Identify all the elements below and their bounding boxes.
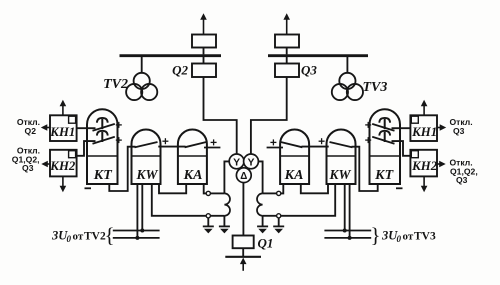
wire KW-KA left xyxy=(158,146,185,148)
output relay KH1 left xyxy=(50,115,77,141)
svg-text:TV3: TV3 xyxy=(363,80,388,95)
KH2 left arrow out xyxy=(41,161,50,168)
power relay KW left body xyxy=(132,130,161,185)
label KW right xyxy=(328,167,351,182)
power transformer T (Y/Y/D) xyxy=(229,154,258,183)
KW left contact xyxy=(135,138,169,147)
label KA left xyxy=(183,168,203,183)
bus W3 (right busbar) xyxy=(268,54,368,57)
svg-text:{: { xyxy=(104,223,114,247)
svg-text:}: } xyxy=(370,223,380,247)
svg-text:КТ: КТ xyxy=(93,168,113,183)
label TV2 xyxy=(103,77,128,92)
wire KA left stub right xyxy=(267,147,283,149)
label minus right xyxy=(396,187,403,189)
label 3U0 ot TV2 xyxy=(51,228,106,244)
label KT left xyxy=(93,168,113,183)
KH2 left arrow down xyxy=(60,176,67,192)
svg-text:TV2: TV2 xyxy=(103,77,128,92)
KT left contact 1 (time contact) xyxy=(77,118,122,131)
wire KW terminal 4 to KA left xyxy=(159,184,186,193)
KH1 right arrow up xyxy=(421,100,428,116)
svg-text:КН1: КН1 xyxy=(411,125,437,139)
label Q1 xyxy=(258,235,274,250)
wire KW contact to KT coil (left) xyxy=(109,147,135,191)
KT left contact 2 (time contact) xyxy=(77,131,122,156)
wire node to coil bottom right xyxy=(263,215,277,217)
svg-text:Q2: Q2 xyxy=(25,126,37,136)
CT coil right xyxy=(257,193,263,215)
wire KW terminal 3 to node right xyxy=(281,184,335,216)
ground left node xyxy=(203,218,214,234)
label Otkl Q2 xyxy=(17,117,40,136)
output relay KH1 right xyxy=(410,115,437,141)
time relay KT right body xyxy=(370,109,401,184)
node circle upper right xyxy=(277,191,281,195)
label KA right xyxy=(284,168,304,183)
svg-text:КА: КА xyxy=(284,168,304,183)
disconnector box left xyxy=(192,35,216,55)
svg-text:КТ: КТ xyxy=(374,168,394,183)
voltage transformer TV3 xyxy=(332,57,363,100)
KH2 right arrow down xyxy=(421,176,428,192)
svg-text:Δ: Δ xyxy=(240,171,247,182)
wire KW terminal 4 to KA right xyxy=(301,184,328,193)
breaker Q1 xyxy=(233,236,254,249)
wire KW terminal 2 left xyxy=(141,184,143,231)
breaker Q2 xyxy=(192,57,216,77)
wire Q2 to transformer xyxy=(204,77,237,154)
label Otkl Q3 xyxy=(450,117,473,136)
svg-text:Q1: Q1 xyxy=(258,235,274,250)
3U0 bus TV3 xyxy=(324,231,371,238)
wire transformer to Q1 xyxy=(242,183,244,236)
svg-text:от: от xyxy=(403,230,414,242)
feeder arrow up (left line W2) xyxy=(200,13,207,34)
svg-text:0: 0 xyxy=(397,234,402,244)
svg-text:TV3: TV3 xyxy=(414,230,436,242)
junction dot xyxy=(343,229,347,233)
feeder arrow up (right line W3) xyxy=(283,13,290,34)
bus W2 (left busbar) xyxy=(120,54,222,57)
label minus left xyxy=(85,187,92,189)
svg-text:Q3: Q3 xyxy=(301,63,317,78)
disconnector box right xyxy=(275,35,299,55)
wire KA-KW right xyxy=(301,146,328,148)
svg-text:KW: KW xyxy=(328,167,351,182)
output relay KH2 right xyxy=(410,150,437,177)
wire node to coil right xyxy=(263,192,277,194)
ground right node xyxy=(273,218,284,234)
wire transformer Y2 to coil right xyxy=(258,161,263,193)
label KH1 right xyxy=(411,125,437,139)
label KH2 left xyxy=(49,159,76,173)
bar below Q1 xyxy=(225,248,261,257)
wire Q3 to transformer xyxy=(251,77,287,154)
wire node to coil bottom left xyxy=(210,215,224,217)
wire node to coil left xyxy=(210,192,224,194)
KH1 left arrow up xyxy=(60,100,67,116)
junction dot xyxy=(135,236,139,240)
svg-text:Q3: Q3 xyxy=(456,175,468,185)
node circle lower left xyxy=(206,214,210,218)
breaker Q3 xyxy=(275,57,299,77)
svg-text:Q3: Q3 xyxy=(22,163,34,173)
wire KA right stub left xyxy=(204,147,220,149)
wire KW terminal 2 right xyxy=(344,184,346,231)
wire KW terminal 3 to node left xyxy=(152,184,206,216)
label Q2 xyxy=(172,63,188,78)
wire KW terminal 1 right xyxy=(349,184,351,238)
svg-text:КН2: КН2 xyxy=(411,159,438,173)
label Q3 xyxy=(301,63,317,78)
wire KA to node right xyxy=(281,184,284,193)
svg-text:Y: Y xyxy=(247,157,254,169)
label KW left xyxy=(135,167,158,182)
node circle upper left xyxy=(206,191,210,195)
KH2 right arrow out xyxy=(437,161,446,168)
KA left contact xyxy=(185,139,217,147)
wire KA to node left xyxy=(204,184,207,193)
svg-text:КА: КА xyxy=(183,168,203,183)
power relay KW right body xyxy=(327,130,356,185)
label KH1 left xyxy=(49,125,75,139)
label 3U0 ot TV3 xyxy=(381,228,436,244)
label Otkl Q123 right xyxy=(450,158,478,186)
arrow up to bar xyxy=(240,258,247,271)
label Otkl Q123 left xyxy=(12,146,40,174)
3U0 bus TV2 xyxy=(113,231,160,238)
KA right contact xyxy=(270,139,302,147)
svg-text:КН1: КН1 xyxy=(49,125,75,139)
brace left xyxy=(104,223,114,247)
voltage transformer TV2 xyxy=(126,57,157,100)
wire KW terminal 1 left xyxy=(136,184,138,238)
KH1 right arrow out xyxy=(437,124,446,131)
time relay KT left body xyxy=(87,109,118,184)
label KT right xyxy=(374,168,394,183)
ground right coil xyxy=(257,216,268,234)
label KH2 right xyxy=(411,159,438,173)
node circle lower right xyxy=(277,214,281,218)
svg-text:KW: KW xyxy=(135,167,158,182)
svg-text:Y: Y xyxy=(233,157,240,169)
junction dot xyxy=(348,236,352,240)
svg-text:TV2: TV2 xyxy=(84,230,106,242)
junction dot xyxy=(140,229,144,233)
CT coil left xyxy=(224,193,230,215)
svg-text:0: 0 xyxy=(67,234,72,244)
current relay KA left body xyxy=(178,130,207,185)
current relay KA right body xyxy=(280,130,309,185)
wire transformer Y1 to coil left xyxy=(224,161,229,193)
label TV3 xyxy=(363,80,388,95)
ground left coil xyxy=(219,216,230,234)
KT right contact 2 (time contact) xyxy=(365,131,410,156)
KT right contact 1 (time contact) xyxy=(365,118,410,131)
output relay KH2 left xyxy=(50,150,77,177)
KH1 left arrow out xyxy=(41,124,50,131)
svg-text:Q3: Q3 xyxy=(453,126,465,136)
svg-text:Q2: Q2 xyxy=(172,63,188,78)
svg-text:от: от xyxy=(73,230,84,242)
wire KW contact to KT coil (right) xyxy=(352,147,378,191)
KW right contact xyxy=(319,138,353,147)
svg-text:КН2: КН2 xyxy=(49,159,76,173)
brace right xyxy=(370,223,380,247)
